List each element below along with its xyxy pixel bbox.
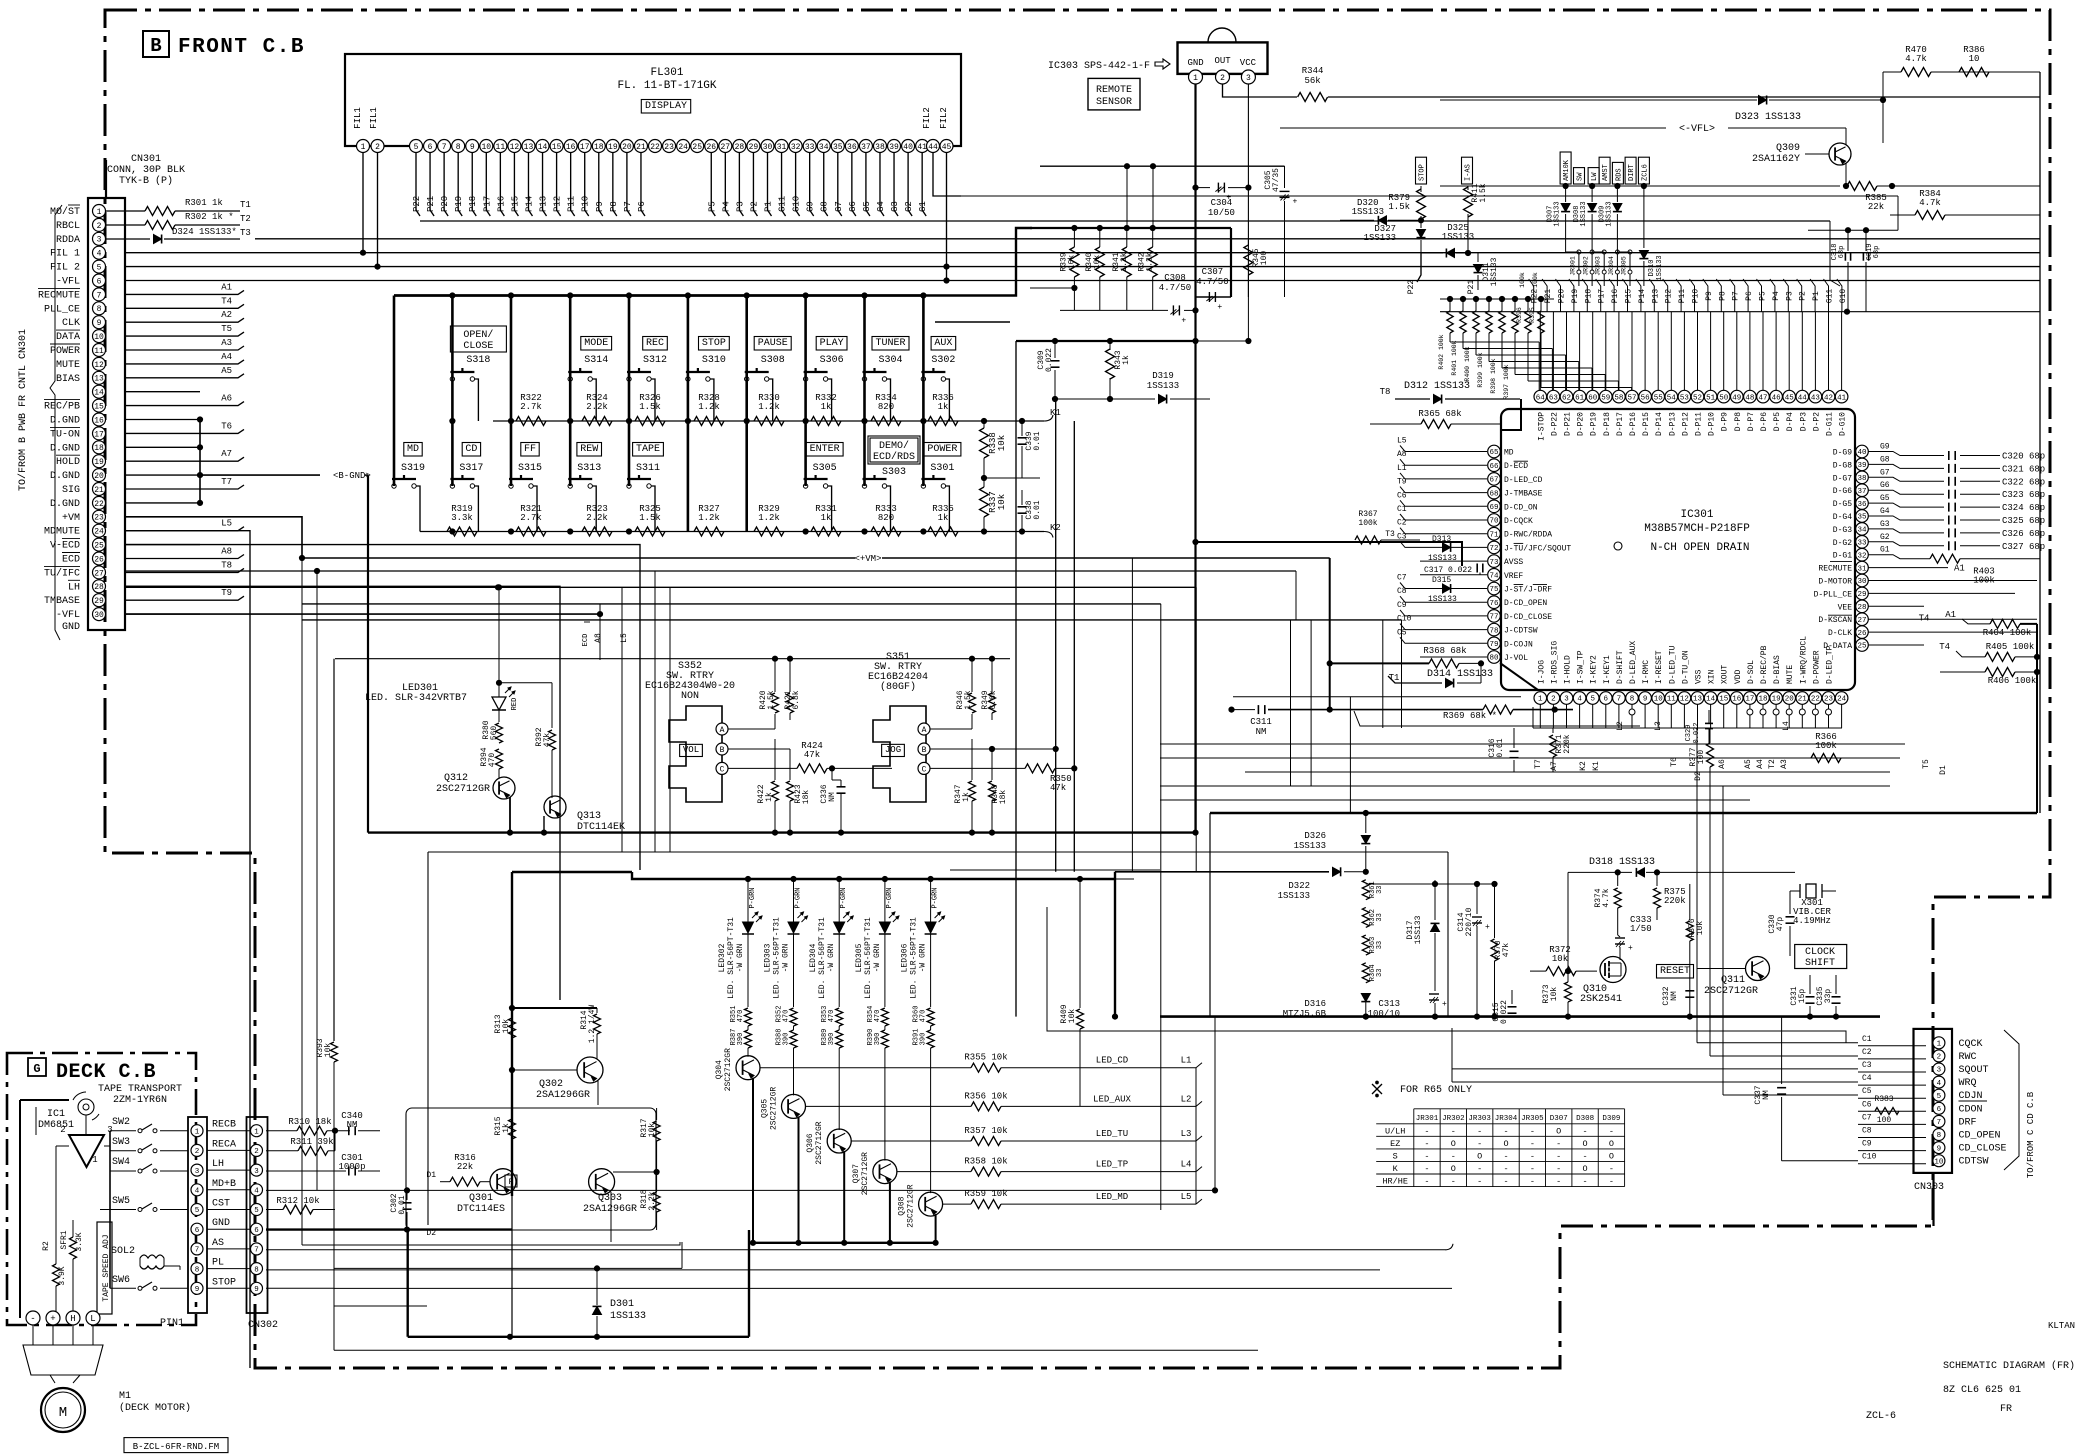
svg-text:ZCL6: ZCL6 xyxy=(1641,164,1649,181)
svg-text:U/LH: U/LH xyxy=(1385,1126,1405,1136)
FL301 pin stub wires and P/G labels xyxy=(416,153,420,217)
transistor Q304 2SC2712GR xyxy=(747,1048,749,1057)
svg-text:47/35: 47/35 xyxy=(1272,168,1281,192)
IC301 open-drain circles xyxy=(1629,709,1635,715)
svg-text:220k: 220k xyxy=(1664,896,1686,906)
svg-text:P12: P12 xyxy=(1665,289,1674,304)
wire outline box around led area xyxy=(428,851,1448,853)
svg-text:18: 18 xyxy=(594,143,604,152)
svg-text:2.7k: 2.7k xyxy=(520,402,542,412)
svg-text:SW2: SW2 xyxy=(112,1117,130,1128)
svg-text:D1: D1 xyxy=(1939,765,1948,775)
svg-text:470: 470 xyxy=(783,1010,791,1023)
svg-text:IC1: IC1 xyxy=(47,1109,65,1120)
svg-text:D-G10: D-G10 xyxy=(1839,412,1848,436)
svg-text:-: - xyxy=(1477,1126,1482,1136)
svg-text:D-TU_ON: D-TU_ON xyxy=(1681,650,1690,684)
svg-text:41: 41 xyxy=(917,143,927,152)
svg-text:P20: P20 xyxy=(440,196,450,212)
svg-text:REW: REW xyxy=(580,444,598,455)
svg-text:A3: A3 xyxy=(1780,759,1789,769)
connector CN302 pin 8 xyxy=(251,1263,263,1275)
wire long line y1031 xyxy=(1047,907,1846,1043)
resistor R322 2.7k xyxy=(516,417,546,426)
connector CN301 pin 6 xyxy=(93,274,106,287)
svg-text:Q303: Q303 xyxy=(598,1193,622,1204)
wire pin80 to pin1 diagonal xyxy=(1500,663,1538,690)
svg-text:M1: M1 xyxy=(119,1391,131,1402)
tape head symbol xyxy=(78,1099,94,1115)
svg-text:47: 47 xyxy=(1758,394,1767,402)
diode D324 1SS133 xyxy=(106,238,150,240)
svg-text:1/50: 1/50 xyxy=(1630,924,1652,934)
svg-text:6: 6 xyxy=(195,1227,200,1235)
switch S313 REW xyxy=(577,443,602,457)
svg-text:FRONT C.B: FRONT C.B xyxy=(178,36,305,59)
svg-text:6: 6 xyxy=(1937,1106,1942,1114)
svg-text:24: 24 xyxy=(94,528,104,537)
connector CN301 pin 9 xyxy=(93,316,106,329)
svg-text:R396: R396 xyxy=(1516,307,1523,323)
svg-text:A7: A7 xyxy=(221,449,232,459)
wire AUX branch thick xyxy=(925,228,1032,296)
connector PIN1 pin 8 xyxy=(191,1263,203,1275)
svg-text:M: M xyxy=(59,1405,67,1421)
connector CN301 pin 2 xyxy=(93,218,106,231)
wire FIL2 top feed xyxy=(961,195,1898,197)
wire MDMUTE route xyxy=(125,531,250,1368)
svg-text:19: 19 xyxy=(94,458,104,467)
svg-text:NON: NON xyxy=(681,691,699,702)
svg-text:1.5k: 1.5k xyxy=(1388,202,1410,212)
svg-text:-: - xyxy=(30,1314,35,1324)
svg-text:Q309: Q309 xyxy=(1776,143,1800,154)
connector CN302 pin 4 xyxy=(251,1184,263,1196)
wire led emitter bus thick xyxy=(748,1242,936,1244)
svg-text:4.7k: 4.7k xyxy=(1919,198,1941,208)
svg-text:C: C xyxy=(720,765,725,774)
svg-text:10k: 10k xyxy=(997,435,1007,451)
switch S314 MODE xyxy=(581,337,612,351)
svg-text:BIAS: BIAS xyxy=(56,374,80,385)
resistor R332 1k xyxy=(811,417,841,426)
svg-text:1SS133: 1SS133 xyxy=(1442,232,1474,242)
svg-text:DTC114EK: DTC114EK xyxy=(577,822,625,833)
svg-text:G4: G4 xyxy=(1880,507,1890,516)
svg-text:470: 470 xyxy=(737,1010,745,1023)
svg-text:RECA: RECA xyxy=(212,1139,236,1150)
svg-text:29: 29 xyxy=(749,143,759,152)
CN301 pin stubs with net labels xyxy=(125,290,244,294)
svg-text:SCHEMATIC DIAGRAM (FR): SCHEMATIC DIAGRAM (FR) xyxy=(1943,1360,2075,1372)
resistor R325 1.5k xyxy=(635,527,665,536)
svg-text:JR304: JR304 xyxy=(1608,256,1615,276)
svg-text:D309: D309 xyxy=(1602,1115,1620,1123)
svg-text:-: - xyxy=(1556,1151,1561,1161)
svg-text:SQOUT: SQOUT xyxy=(1959,1065,1989,1076)
wire thick block bottom xyxy=(408,1336,749,1338)
svg-text:G10: G10 xyxy=(1839,289,1848,304)
svg-text:FIL1: FIL1 xyxy=(353,107,363,129)
connector CN301 pin 4 xyxy=(93,246,106,259)
svg-text:-W GRN: -W GRN xyxy=(827,943,836,972)
resistor R343 1k xyxy=(1109,341,1111,350)
svg-text:DTC114ES: DTC114ES xyxy=(457,1204,505,1215)
svg-text:1.2k: 1.2k xyxy=(698,402,720,412)
svg-text:VCC: VCC xyxy=(1240,58,1257,68)
svg-text:45: 45 xyxy=(1785,394,1795,402)
boxed label TAPE SPEED ADJ xyxy=(97,1222,112,1314)
svg-text:D-P10: D-P10 xyxy=(1708,412,1717,436)
svg-text:9: 9 xyxy=(195,1286,200,1294)
svg-text:R383: R383 xyxy=(1874,1095,1893,1104)
svg-text:P-GRN: P-GRN xyxy=(795,887,803,908)
boxed label AMST xyxy=(1599,157,1610,184)
svg-text:G9: G9 xyxy=(1880,443,1890,452)
svg-text:R301 1k: R301 1k xyxy=(185,198,223,208)
connector CN303 pin 4 xyxy=(1933,1076,1945,1088)
wire mesh horizontals center xyxy=(950,869,1160,871)
svg-text:1SS133: 1SS133 xyxy=(1428,554,1457,563)
svg-text:Q302: Q302 xyxy=(539,1079,563,1090)
svg-text:A: A xyxy=(922,726,927,735)
svg-text:GND: GND xyxy=(212,1218,230,1229)
svg-text:51: 51 xyxy=(1706,394,1716,402)
svg-text:D319: D319 xyxy=(1152,371,1174,381)
resistor R358 10k row xyxy=(897,1171,971,1173)
svg-text:10k: 10k xyxy=(997,494,1007,510)
svg-text:1SS133: 1SS133 xyxy=(610,1311,646,1322)
connector CN301 pin 18 xyxy=(93,441,106,454)
wire AVSS thick feed xyxy=(1196,542,1463,566)
svg-text:0.01: 0.01 xyxy=(1496,738,1505,757)
svg-text:D-P11: D-P11 xyxy=(1695,412,1704,436)
svg-text:C3: C3 xyxy=(1862,1061,1872,1070)
svg-text:C323 68p: C323 68p xyxy=(2002,490,2045,500)
svg-text:-: - xyxy=(1609,1164,1614,1174)
svg-text:820: 820 xyxy=(878,513,894,523)
connector CN301 pin 8 xyxy=(93,302,106,315)
svg-text:45: 45 xyxy=(942,143,952,152)
svg-text:FF: FF xyxy=(524,444,536,455)
svg-text:78: 78 xyxy=(1489,627,1498,635)
switch S303 DEMO//ECD/RDS xyxy=(870,438,918,462)
svg-text:P9: P9 xyxy=(595,201,605,212)
switch S301 POWER xyxy=(924,443,961,457)
table R65 jumpers xyxy=(1376,1109,1624,1187)
svg-text:44: 44 xyxy=(1798,394,1808,402)
svg-text:LH: LH xyxy=(68,582,80,593)
svg-text:D-G11: D-G11 xyxy=(1826,412,1835,436)
wire thick VM drop xyxy=(1329,558,1331,710)
wire under-IC mesh xyxy=(1160,743,1905,745)
svg-text:REC/PB: REC/PB xyxy=(44,401,80,413)
wire IC bottom collector lines xyxy=(1533,727,1842,729)
svg-text:MUTE: MUTE xyxy=(56,360,80,371)
svg-text:21: 21 xyxy=(94,486,104,495)
svg-text:2: 2 xyxy=(60,1125,65,1135)
overlines left pin labels xyxy=(1514,460,1528,462)
wire CN303 vertical feeds xyxy=(1696,728,1698,1043)
svg-text:80: 80 xyxy=(1489,655,1499,663)
svg-text:31: 31 xyxy=(777,143,787,152)
svg-text:C10: C10 xyxy=(1397,615,1412,624)
svg-text:C9: C9 xyxy=(1397,601,1407,610)
svg-text:18: 18 xyxy=(1758,696,1767,704)
svg-text:I-KEY2: I-KEY2 xyxy=(1590,655,1599,684)
capacitor C305 47/35 xyxy=(1284,166,1286,188)
svg-text:A2: A2 xyxy=(221,310,232,320)
svg-text:13: 13 xyxy=(1693,696,1703,704)
wires CN303 left feeds xyxy=(1697,1042,1858,1044)
svg-text:+: + xyxy=(50,1314,55,1324)
svg-text:C9: C9 xyxy=(1862,1140,1872,1149)
connector PIN1 pin 4 xyxy=(191,1184,203,1196)
resistor R328 1.2k xyxy=(694,417,724,426)
svg-text:O: O xyxy=(1477,1151,1482,1161)
connector CN303 body xyxy=(1914,1029,1953,1173)
svg-text:22: 22 xyxy=(94,500,104,509)
LED LED302 SLR-56PT-T31 xyxy=(747,879,749,922)
svg-text:G2: G2 xyxy=(1880,533,1890,542)
svg-text:R404 100k: R404 100k xyxy=(1983,628,2032,638)
svg-text:NM: NM xyxy=(828,792,837,802)
svg-text:LED_AUX: LED_AUX xyxy=(1093,1094,1131,1104)
svg-text:3: 3 xyxy=(97,236,102,245)
svg-text:RECB: RECB xyxy=(212,1120,236,1131)
svg-text:1k: 1k xyxy=(938,513,949,523)
svg-text:28: 28 xyxy=(1857,604,1866,612)
transistor Q302 2SA1296GR xyxy=(577,1057,603,1083)
svg-text:G6: G6 xyxy=(848,201,858,212)
svg-text:0.022: 0.022 xyxy=(1045,348,1054,372)
switch S318 OPEN//CLOSE xyxy=(450,326,506,352)
transistor Q305 2SC2712GR xyxy=(793,1048,795,1095)
svg-text:10: 10 xyxy=(1969,54,1980,64)
svg-text:12: 12 xyxy=(510,143,520,152)
svg-text:C6: C6 xyxy=(1862,1100,1872,1109)
svg-text:10k: 10k xyxy=(1552,954,1568,964)
svg-text:1k: 1k xyxy=(821,402,832,412)
svg-text:P8: P8 xyxy=(609,201,619,212)
svg-text:G11: G11 xyxy=(1826,289,1835,304)
switch S310 STOP xyxy=(699,337,730,351)
wire FL301 pin44 xyxy=(933,153,961,197)
svg-text:D-P13: D-P13 xyxy=(1668,412,1677,436)
svg-text:D301: D301 xyxy=(610,1299,634,1310)
svg-text:S314: S314 xyxy=(584,355,608,366)
svg-text:<B-GND>: <B-GND> xyxy=(333,471,371,481)
svg-text:10: 10 xyxy=(1934,1158,1944,1166)
wire LH route xyxy=(125,586,560,1000)
svg-text:CD_CLOSE: CD_CLOSE xyxy=(1959,1144,2007,1155)
svg-text:470: 470 xyxy=(488,753,497,768)
svg-text:PAUSE: PAUSE xyxy=(758,338,788,349)
svg-text:D-P14: D-P14 xyxy=(1655,412,1664,436)
svg-text:7: 7 xyxy=(1937,1119,1942,1127)
wire jumper feeds xyxy=(1566,251,1579,253)
svg-text:10: 10 xyxy=(1654,696,1664,704)
svg-text:D308: D308 xyxy=(1576,1115,1594,1123)
svg-text:4: 4 xyxy=(1937,1080,1942,1088)
wire right bus vertical xyxy=(2039,72,2041,813)
FL301 pins 1-2 xyxy=(357,140,370,153)
svg-text:-: - xyxy=(1477,1164,1482,1174)
svg-text:37: 37 xyxy=(1857,488,1866,496)
connector CN303 pin 1 xyxy=(1933,1037,1945,1049)
svg-text:67: 67 xyxy=(1489,477,1498,485)
wire thick q302 feed xyxy=(512,1007,597,1009)
svg-text:72: 72 xyxy=(1489,545,1498,553)
svg-text:5: 5 xyxy=(254,1207,259,1215)
transistor Q303 2SA1296GR xyxy=(589,1169,615,1195)
transistor Q308 2SC2712GR xyxy=(930,1048,932,1193)
svg-text:P21: P21 xyxy=(1544,289,1553,304)
svg-text:L3: L3 xyxy=(1654,721,1663,731)
svg-text:2: 2 xyxy=(97,222,102,231)
svg-text:RED: RED xyxy=(511,698,519,711)
svg-text:P13: P13 xyxy=(539,196,549,212)
svg-text:C8: C8 xyxy=(1397,587,1407,596)
svg-text:R400 100k: R400 100k xyxy=(1464,346,1471,381)
svg-text:9: 9 xyxy=(470,143,475,152)
svg-text:D-P17: D-P17 xyxy=(1616,412,1625,436)
svg-text:44: 44 xyxy=(928,143,938,152)
svg-text:3: 3 xyxy=(195,1168,200,1176)
svg-text:CLOSE: CLOSE xyxy=(463,341,493,352)
svg-text:K1: K1 xyxy=(1592,761,1601,771)
svg-text:17: 17 xyxy=(580,143,590,152)
svg-text:RWC: RWC xyxy=(1959,1052,1977,1063)
svg-text:P13: P13 xyxy=(1651,289,1660,304)
svg-text:1k: 1k xyxy=(821,513,832,523)
svg-text:27: 27 xyxy=(1857,617,1866,625)
svg-text:T4: T4 xyxy=(1919,613,1930,623)
svg-text:9: 9 xyxy=(254,1286,259,1294)
wire rotary top line xyxy=(335,658,1010,660)
svg-text:D-G4: D-G4 xyxy=(1833,513,1852,522)
svg-text:1k: 1k xyxy=(1122,355,1131,365)
svg-text:7: 7 xyxy=(97,291,102,300)
svg-text:RDS: RDS xyxy=(1615,168,1623,181)
svg-text:L3: L3 xyxy=(1181,1129,1192,1139)
svg-text:I-SW_TP: I-SW_TP xyxy=(1577,650,1586,684)
svg-text:AMST: AMST xyxy=(1602,164,1610,181)
wire +VM bus xyxy=(302,557,855,559)
svg-text:A5: A5 xyxy=(1744,759,1753,769)
svg-text:C329: C329 xyxy=(1685,725,1693,742)
svg-text:C6: C6 xyxy=(1397,491,1407,500)
svg-text:-: - xyxy=(1451,1126,1456,1136)
resistor R335 1k xyxy=(928,527,958,536)
svg-text:-W GRN: -W GRN xyxy=(736,943,745,972)
wire FL301 pin1 to FIL1 bus xyxy=(362,153,364,253)
svg-text:T7: T7 xyxy=(1534,759,1543,769)
svg-text:65: 65 xyxy=(1489,449,1499,457)
svg-text:8: 8 xyxy=(1630,696,1635,704)
svg-text:MDMUTE: MDMUTE xyxy=(44,527,80,538)
resistor row lower wire xyxy=(420,531,1044,533)
svg-text:K2: K2 xyxy=(1579,761,1588,771)
svg-text:16: 16 xyxy=(566,143,576,152)
wire reset verticals xyxy=(1209,813,1211,1017)
svg-text:FIL 1: FIL 1 xyxy=(50,249,80,260)
svg-text:R2: R2 xyxy=(42,1241,51,1251)
boxed label JOG xyxy=(882,744,905,756)
wire VCC pin3 down xyxy=(1247,84,1249,240)
svg-text:P16: P16 xyxy=(1611,289,1620,304)
svg-text:D-G3: D-G3 xyxy=(1833,526,1852,535)
svg-text:27: 27 xyxy=(721,143,731,152)
svg-text:LED. SLR-56PT-T31: LED. SLR-56PT-T31 xyxy=(773,917,782,999)
svg-text:68: 68 xyxy=(1489,490,1498,498)
svg-text:LED302: LED302 xyxy=(718,943,727,972)
svg-text:MD+B: MD+B xyxy=(212,1179,236,1190)
svg-text:G7: G7 xyxy=(834,201,844,212)
svg-text:C321 68p: C321 68p xyxy=(2002,464,2045,474)
svg-text:2.2k: 2.2k xyxy=(586,513,608,523)
svg-text:39: 39 xyxy=(889,143,899,152)
wire header top line xyxy=(1440,311,2040,313)
wire hook to C316 line xyxy=(1354,711,1640,726)
connector CN301 pin 16 xyxy=(93,413,106,426)
connector CN301 pin 15 xyxy=(93,399,106,412)
svg-text:-: - xyxy=(1451,1177,1456,1187)
svg-text:V-ECD: V-ECD xyxy=(50,541,80,552)
svg-text:D-P18: D-P18 xyxy=(1603,412,1612,436)
box around Q301 Q303 xyxy=(406,1108,656,1230)
svg-text:A1: A1 xyxy=(1954,564,1965,574)
svg-text:2: 2 xyxy=(375,143,380,152)
resistor R301 1k xyxy=(106,210,145,212)
wire vertical x1215 xyxy=(1214,1017,1216,1191)
svg-text:P22: P22 xyxy=(412,196,422,212)
svg-text:56: 56 xyxy=(1641,394,1651,402)
svg-text:FIL1: FIL1 xyxy=(369,107,379,129)
svg-text:C7: C7 xyxy=(1862,1113,1872,1122)
svg-text:21: 21 xyxy=(636,143,646,152)
svg-text:17: 17 xyxy=(1745,696,1754,704)
connector CN301 pin 19 xyxy=(93,455,106,468)
svg-text:RECMUTE: RECMUTE xyxy=(1818,565,1852,574)
svg-text:1.2k: 1.2k xyxy=(698,513,720,523)
resistor R357 10k row xyxy=(851,1140,971,1142)
boxed label LW xyxy=(1588,168,1599,184)
svg-text:G3: G3 xyxy=(1880,520,1890,529)
svg-text:30: 30 xyxy=(763,143,773,152)
svg-text:100: 100 xyxy=(1877,1116,1892,1125)
svg-text:SW5: SW5 xyxy=(112,1196,130,1207)
svg-text:AM10K: AM10K xyxy=(1563,159,1571,181)
svg-text:D323 1SS133: D323 1SS133 xyxy=(1735,112,1801,123)
svg-text:D-MOTOR: D-MOTOR xyxy=(1818,578,1852,587)
wire D.GND vertical tie xyxy=(199,420,201,503)
svg-text:40: 40 xyxy=(903,143,913,152)
svg-text:G1: G1 xyxy=(1880,546,1890,555)
connector CN301 pin 22 xyxy=(93,496,106,509)
resistor R337 10k xyxy=(980,487,989,517)
svg-text:0.01: 0.01 xyxy=(1033,500,1042,519)
svg-text:D-P3: D-P3 xyxy=(1799,412,1808,431)
svg-text:C324 68p: C324 68p xyxy=(2002,503,2045,513)
svg-text:FL301: FL301 xyxy=(650,67,683,79)
svg-text:36: 36 xyxy=(1857,501,1867,509)
svg-text:DATA: DATA xyxy=(56,332,80,343)
connector CN303 pin 6 xyxy=(1933,1102,1945,1114)
svg-text:D-P8: D-P8 xyxy=(1734,412,1743,431)
svg-text:2SC2712GR: 2SC2712GR xyxy=(436,784,490,795)
svg-text:100: 100 xyxy=(1697,750,1706,765)
